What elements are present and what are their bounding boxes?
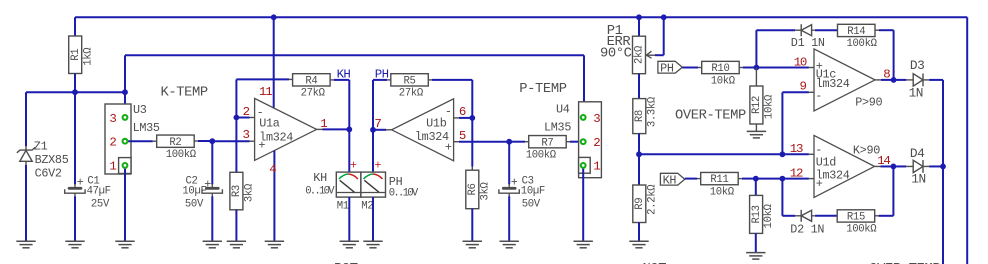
svg-text:3kΩ: 3kΩ <box>479 181 491 200</box>
svg-text:R10: R10 <box>711 63 729 75</box>
svg-text:C6V2: C6V2 <box>35 167 62 181</box>
resistor R7 <box>526 136 567 162</box>
wire M2 drop <box>372 130 374 172</box>
resistor R6 <box>466 170 492 209</box>
potentiometer P1 <box>600 24 655 74</box>
node U1b pin6 junction <box>469 115 475 121</box>
svg-text:3: 3 <box>109 112 116 126</box>
wire U3 pin2 to R2 <box>125 140 153 142</box>
svg-text:LM35: LM35 <box>133 121 160 135</box>
wire U1a output <box>317 128 323 130</box>
pin U4-1 <box>581 163 586 168</box>
wire U1b pin5 row <box>454 141 459 143</box>
svg-text:R11: R11 <box>710 174 728 186</box>
wire D2 to R15 <box>815 215 837 217</box>
svg-text:R2: R2 <box>169 137 181 149</box>
wire U4 pin3 drop <box>583 55 585 115</box>
wire U1c pin9 stub <box>809 91 814 93</box>
ground C2 <box>203 240 222 242</box>
ground U1a pin4 <box>265 240 284 242</box>
zener diode Z1 <box>17 139 69 180</box>
node U1c pin10 junction <box>754 65 760 71</box>
svg-text:10kΩ: 10kΩ <box>710 186 735 198</box>
wire R1 top <box>74 17 76 36</box>
node supply junction U3 riser <box>122 89 128 95</box>
svg-text:100kΩ: 100kΩ <box>166 149 197 161</box>
ground R3 <box>227 240 246 242</box>
wire D3 to OR line <box>929 79 943 81</box>
node U1d output junction <box>891 164 897 170</box>
wire Z1 cathode riser <box>25 92 27 146</box>
ground C3 <box>500 240 519 242</box>
svg-text:1: 1 <box>109 160 116 174</box>
svg-text:1N: 1N <box>909 86 923 101</box>
pin U4-2 <box>581 139 586 144</box>
svg-text:R1: R1 <box>70 49 82 61</box>
wire C2 top <box>211 141 213 184</box>
svg-text:R12: R12 <box>751 96 763 114</box>
resistor R12 <box>750 86 776 124</box>
node U1b output junction <box>370 127 376 133</box>
svg-text:R5: R5 <box>404 75 416 87</box>
wire C2 bottom to ground <box>211 196 213 241</box>
wire KH drop to output <box>348 80 350 129</box>
svg-text:R6: R6 <box>467 183 479 195</box>
svg-text:OVER-TEMP: OVER-TEMP <box>675 108 746 123</box>
node R13 junction <box>753 176 759 182</box>
svg-text:6: 6 <box>459 105 466 119</box>
svg-text:KH: KH <box>313 171 327 185</box>
svg-text:100kΩ: 100kΩ <box>846 224 877 236</box>
svg-text:47µF: 47µF <box>87 186 111 198</box>
pin U4-3 <box>581 115 586 120</box>
wire R9 bottom to ground <box>638 223 640 242</box>
wire R5 right to riser <box>428 79 432 81</box>
svg-text:1kΩ: 1kΩ <box>82 47 94 66</box>
resistor R3 <box>230 172 256 210</box>
svg-text:100kΩ: 100kΩ <box>526 149 557 161</box>
wire U3 pin1 to ground <box>124 165 126 241</box>
resistor R8 <box>633 96 659 134</box>
node pin12 junction <box>780 176 786 182</box>
svg-text:PH: PH <box>660 61 674 75</box>
ground U4 <box>574 240 593 242</box>
svg-text:2: 2 <box>109 136 116 150</box>
wire R15 right corner up to pin14 <box>875 215 879 217</box>
svg-text:D4: D4 <box>910 146 925 161</box>
svg-text:R14: R14 <box>847 26 865 38</box>
flag PH <box>658 61 682 75</box>
wire V+ right edge down <box>966 17 968 264</box>
svg-text:lm324: lm324 <box>816 168 850 182</box>
svg-text:D2 1N: D2 1N <box>790 223 824 237</box>
wire OR line down <box>942 80 944 167</box>
wire U4 pin1 to ground <box>582 165 584 241</box>
ground C1 <box>65 240 84 242</box>
svg-text:27kΩ: 27kΩ <box>301 88 326 100</box>
wire R4 right to KH corner <box>330 79 334 81</box>
wire R12 bottom <box>755 124 757 131</box>
wire feedback riser U1a <box>235 79 237 117</box>
svg-text:R13: R13 <box>751 205 763 223</box>
svg-text:lm324: lm324 <box>259 130 293 144</box>
wire R10 right to pin10 node <box>739 67 743 69</box>
svg-text:D1 1N: D1 1N <box>791 36 825 50</box>
wire to D2 <box>782 215 795 217</box>
svg-text:10kΩ: 10kΩ <box>764 94 776 119</box>
op-amp U1d <box>814 135 875 197</box>
wire OR line to bottom <box>942 166 944 264</box>
IC U4 LM35 body <box>544 102 601 178</box>
wire U1c feedback riser <box>755 30 757 67</box>
svg-text:KH: KH <box>337 68 351 82</box>
svg-text:10: 10 <box>794 56 807 70</box>
ground M2 <box>363 240 382 242</box>
svg-text:R9: R9 <box>634 198 646 210</box>
svg-text:8: 8 <box>883 67 890 81</box>
svg-text:D3: D3 <box>910 58 924 73</box>
wire C3 top <box>508 142 510 185</box>
wire R3 riser <box>235 118 237 173</box>
svg-text:+: + <box>511 175 518 189</box>
svg-text:10kΩ: 10kΩ <box>763 203 775 228</box>
svg-text:27kΩ: 27kΩ <box>399 88 424 100</box>
svg-text:10µF: 10µF <box>521 186 545 198</box>
svg-text:LM35: LM35 <box>544 121 571 135</box>
svg-text:0..10V: 0..10V <box>305 185 335 197</box>
wire R3 bottom to ground <box>235 210 237 242</box>
wire KH flag to R11 <box>685 178 697 180</box>
svg-text:M1: M1 <box>337 200 349 212</box>
svg-text:10µF: 10µF <box>182 186 206 198</box>
node U1c output junction <box>891 77 897 83</box>
resistor R13 <box>750 195 776 233</box>
capacitor C1 <box>65 175 111 210</box>
wire R1 bottom to supply node <box>74 74 76 93</box>
svg-text:3: 3 <box>593 112 600 126</box>
svg-text:R3: R3 <box>231 185 243 197</box>
svg-text:50V: 50V <box>522 198 541 210</box>
wire D4 to OR node <box>929 165 943 167</box>
svg-text:25V: 25V <box>91 198 110 210</box>
IC U3 LM35 body <box>105 103 160 174</box>
wire pin12 row to U1d <box>782 178 809 180</box>
resistor R4 <box>293 74 331 100</box>
wire R2 right to node <box>194 140 198 142</box>
svg-text:U1b: U1b <box>426 117 447 131</box>
resistor R9 <box>633 184 659 223</box>
wire C1 bottom to ground <box>74 196 76 241</box>
op-amp U1c <box>814 49 875 111</box>
svg-text:1: 1 <box>320 117 327 131</box>
ground M1 <box>340 240 359 242</box>
svg-text:U1a: U1a <box>259 117 280 131</box>
svg-text:2: 2 <box>593 136 600 150</box>
wire PH stub to R5 <box>373 79 387 81</box>
wire D2 riser from pin12 node <box>781 179 783 216</box>
ground R13 <box>746 252 765 254</box>
svg-text:lm324: lm324 <box>816 77 850 91</box>
resistor R2 <box>157 135 197 161</box>
svg-text:U3: U3 <box>133 103 147 117</box>
resistor R1 <box>69 36 95 74</box>
wire U3 supply riser <box>124 55 126 114</box>
node supply junction R1/C1 <box>72 89 78 95</box>
svg-text:4: 4 <box>269 163 276 177</box>
svg-text:R15: R15 <box>847 212 865 224</box>
resistor R5 <box>391 74 429 100</box>
node rail P1 junction <box>636 14 642 20</box>
svg-text:K-TEMP: K-TEMP <box>161 86 208 101</box>
node U1a pin2 junction <box>234 115 240 121</box>
wire P1 bottom to R8 <box>638 74 640 99</box>
wire P1 wiper to rail <box>655 54 664 56</box>
svg-text:1N: 1N <box>911 172 925 187</box>
wire to R7 <box>509 141 525 143</box>
pin U3-2 <box>123 139 128 144</box>
svg-text:100kΩ: 100kΩ <box>847 38 878 50</box>
svg-text:Z1: Z1 <box>34 139 48 153</box>
wire R7 right to U4 pin2 <box>566 141 570 143</box>
wire threshold row to U1d pin13 <box>639 153 809 155</box>
resistor R10 <box>702 61 740 87</box>
wire feedback top U1a <box>236 78 289 80</box>
wire R13 bottom to ground <box>755 233 757 252</box>
svg-text:R8: R8 <box>634 110 646 122</box>
diode D4 <box>906 146 929 187</box>
resistor R14 <box>838 24 878 50</box>
node divider junction <box>636 151 642 157</box>
wire C3 bottom to ground <box>508 196 510 241</box>
node C3 junction <box>506 139 512 145</box>
svg-text:BZX85: BZX85 <box>35 153 69 167</box>
svg-text:R7: R7 <box>541 137 553 149</box>
wire supply row y92 <box>26 91 125 93</box>
svg-text:3.3kΩ: 3.3kΩ <box>646 96 658 127</box>
wire C1 top <box>74 92 76 184</box>
svg-text:3kΩ: 3kΩ <box>244 183 256 202</box>
wire node to U1a pin3 <box>212 140 249 142</box>
wire U1c output <box>875 79 881 81</box>
pin U3-3 <box>123 115 128 120</box>
wire feedback top to D1 <box>756 29 795 31</box>
wire R13 top stub <box>755 179 757 196</box>
svg-text:14: 14 <box>877 154 890 168</box>
svg-text:KH: KH <box>663 173 677 187</box>
wire R14 right corner down to pin8 <box>875 29 879 31</box>
wire M2 bottom to ground <box>372 197 374 241</box>
wire D1 to R14 <box>815 29 838 31</box>
svg-text:3: 3 <box>243 128 250 142</box>
node threshold junction pin13 <box>780 151 786 157</box>
ground R12 <box>747 130 766 132</box>
wire to pin12 node <box>756 178 783 180</box>
wire V+ top rail <box>75 16 967 18</box>
svg-text:2.2kΩ: 2.2kΩ <box>646 184 658 215</box>
wire U1d output <box>875 165 881 167</box>
ground U3 <box>115 240 134 242</box>
svg-text:0..10V: 0..10V <box>389 188 419 200</box>
wire output to D4 <box>893 165 906 167</box>
wire R8 bottom to divider node <box>638 134 640 185</box>
node rail wiper junction <box>661 14 667 20</box>
wire pin2 stub <box>236 117 249 119</box>
op-amp U1b (mirrored) <box>392 99 454 161</box>
svg-text:P>90: P>90 <box>855 96 882 110</box>
pin U3-1 <box>123 163 128 168</box>
svg-text:P-TEMP: P-TEMP <box>519 82 566 97</box>
svg-text:11: 11 <box>259 85 272 99</box>
wire M1 drop <box>348 129 350 172</box>
op-amp U1a <box>255 98 317 160</box>
svg-text:90°C: 90°C <box>600 47 632 62</box>
wire pin6 stub <box>454 117 459 119</box>
node OR junction <box>940 164 946 170</box>
node U1a output junction <box>346 126 352 132</box>
svg-text:2kΩ: 2kΩ <box>634 45 646 64</box>
diode D2 <box>790 210 824 237</box>
svg-text:K>90: K>90 <box>853 143 880 157</box>
wire PH flag to R10 <box>682 67 698 69</box>
diode D1 <box>791 24 825 50</box>
svg-text:50V: 50V <box>185 198 204 210</box>
wire pin9 riser to threshold <box>781 92 783 154</box>
svg-text:1: 1 <box>593 160 600 174</box>
capacitor C2 <box>182 175 222 210</box>
wire output to D3 <box>894 79 907 81</box>
wire M1 bottom to ground <box>348 197 350 241</box>
wire U1b output to junction <box>386 129 392 131</box>
resistor R11 <box>701 172 739 198</box>
wire P1 top <box>638 17 640 36</box>
svg-text:R4: R4 <box>305 75 317 87</box>
svg-text:10kΩ: 10kΩ <box>711 75 736 87</box>
svg-text:-: - <box>815 89 822 103</box>
wire pin10 row to U1c <box>756 67 809 69</box>
wire PH drop to U1b output <box>372 80 374 130</box>
ground R9 <box>629 240 648 242</box>
node K sensor junction <box>209 138 215 144</box>
wire R6 bottom to ground <box>471 209 473 242</box>
svg-text:M2: M2 <box>361 200 373 212</box>
resistor R15 <box>837 210 877 236</box>
ground R6 <box>463 240 482 242</box>
wire Z1 anode to ground <box>25 165 27 241</box>
meter M2 <box>361 172 386 212</box>
pin 4 wire U1a to ground <box>273 151 275 242</box>
svg-text:U4: U4 <box>556 103 570 117</box>
wire U1b feedback riser / R6 chain <box>471 80 473 167</box>
diode D3 <box>906 58 929 100</box>
wire U1a V+ from rail <box>271 14 277 20</box>
meter M1 <box>336 172 361 212</box>
svg-text:+: + <box>77 175 84 189</box>
ground Z1 <box>16 240 35 242</box>
wire sensors supply row y55 <box>125 54 584 56</box>
wire R12 stub <box>755 68 757 87</box>
flag KH <box>660 173 684 187</box>
svg-text:lm324: lm324 <box>415 130 449 144</box>
wire R11 right to R13 node <box>738 178 742 180</box>
capacitor C3 <box>499 175 545 210</box>
svg-text:13: 13 <box>790 142 803 156</box>
